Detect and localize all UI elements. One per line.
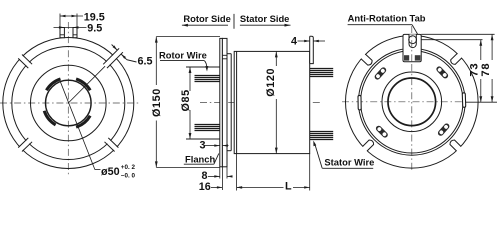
screw slot upper-left [374,66,388,81]
U-notch upper-left [360,54,372,65]
Rotor Wire label [159,49,208,71]
svg-text:Ø120: Ø120 [265,68,277,97]
D150 dimension [151,37,220,168]
9.5 dimension [54,22,103,34]
ring notch lower-right [106,139,118,151]
svg-text:+0. 2: +0. 2 [121,164,136,171]
right view ring double circle [358,48,465,155]
D85 dimension [180,67,192,139]
body inner wall line [236,51,238,153]
ring slot right [462,93,466,108]
anti-rotation tab slot (front view, top) [60,28,77,38]
svg-text:Stator Side: Stator Side [240,13,290,24]
ring slot left [358,95,361,110]
left view outer circle D150 [3,38,134,169]
Rotor Side label and arrow [182,13,231,27]
tab screws [404,55,409,60]
svg-text:Ø150: Ø150 [151,88,163,117]
svg-text:4: 4 [291,35,297,47]
73 dimension [469,40,483,102]
4 dimension (tab) [291,35,325,47]
bottom dimension 3 [200,140,229,152]
rotor contact arcs (4 thick segments) [44,79,90,127]
19.5 dimension [60,11,105,27]
stator wire bundle upper [310,69,334,77]
ring notch at 45 deg (with 6.5 slot lines extended) [104,49,122,67]
svg-text:−0. 0: −0. 0 [121,173,136,180]
flange plate (Flanch) [220,38,223,166]
stator body D120 [234,51,310,153]
right view vertical center line (lower part) [411,64,413,172]
bottom dimension 8 [202,170,233,182]
ring notch lower-left [19,139,31,151]
left view: rotor-side face of slip ring [0,22,141,177]
svg-text:Rotor Wire: Rotor Wire [159,49,207,60]
6.5 dimension arrows [112,45,118,51]
right view horizontal center line [342,101,466,103]
rotor wire bundle upper [195,76,220,82]
Flanch label [184,153,219,164]
right view outer circle [346,36,479,169]
rotor wire bundle lower [195,125,220,131]
right view vertical center line (upper part, over tab) [411,26,413,64]
left view vertical center line [67,22,69,177]
screw slot lower-right [437,122,451,137]
Stator Side label and arrow [240,13,291,27]
stator wire bundle lower [310,132,334,140]
D120 dimension [265,51,278,153]
rotor hub plate behind flange [227,53,231,55]
left view boss circle D85 [31,65,107,141]
second plate [222,38,227,166]
svg-text:L: L [285,181,292,193]
svg-text:6.5: 6.5 [138,56,153,68]
svg-text:Anti-Rotation Tab: Anti-Rotation Tab [348,12,426,23]
U-notch lower-right [450,140,461,151]
svg-text:Stator Wire: Stator Wire [324,156,374,167]
bottom dimension 16 [199,181,242,193]
svg-text:16: 16 [199,181,211,193]
svg-text:78: 78 [480,63,492,77]
svg-text:ø50: ø50 [101,166,120,178]
radial leader line at 45 deg [68,66,105,103]
stator anti-rotation tab (side view) [310,36,314,63]
svg-text:Flanch: Flanch [185,153,215,164]
rotor boss top/bottom edges [186,66,220,68]
D50 bore leader [60,81,135,179]
ring notch upper-left [19,55,31,67]
middle view center line [200,102,320,104]
U-notch upper-right [451,53,462,64]
svg-text:9.5: 9.5 [87,22,102,34]
Anti-Rotation Tab label [348,12,426,34]
svg-text:Ø85: Ø85 [180,89,192,111]
svg-text:73: 73 [469,63,481,77]
left view ring circle [12,47,125,160]
screw slot lower-left [375,125,389,139]
plate joint lines [222,54,227,56]
U-notch lower-left [362,140,373,151]
Stator Wire label [313,141,374,169]
svg-text:Rotor Side: Rotor Side [183,13,230,24]
extension verticals for bottom dims [219,167,221,179]
anti-rotation tab (rear view, top) [403,34,421,61]
bottom dimension L [237,181,310,193]
right view bore circles [382,72,442,132]
rotor/stator divider tick [233,14,235,29]
screw slot upper-right [435,65,449,79]
6.5 leader and text [127,60,137,62]
left view bore circle D50 [46,80,92,126]
73/78 extension lines [421,33,494,35]
78 dimension [480,34,494,102]
left view horizontal center line [0,102,141,104]
